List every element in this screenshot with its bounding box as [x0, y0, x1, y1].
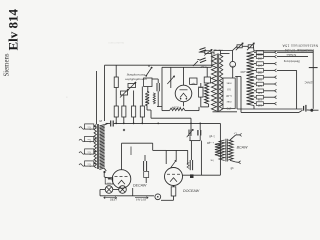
svg-text:unempfindlicher: unempfindlicher [124, 77, 147, 81]
svg-text:150: 150 [257, 77, 262, 80]
svg-text:Abn.: Abn. [87, 140, 92, 143]
svg-text:qB: qB [230, 167, 233, 170]
svg-text:110VAC: 110VAC [304, 81, 313, 84]
svg-text:DECAW: DECAW [133, 183, 147, 187]
svg-text:220: 220 [257, 71, 262, 74]
svg-text:Überbrückung: Überbrückung [283, 60, 300, 64]
svg-text:Abn.: Abn. [87, 153, 92, 156]
svg-text:0,1µF: 0,1µF [200, 65, 207, 67]
svg-text:1–qB: 1–qB [209, 135, 215, 138]
svg-text:max: max [226, 100, 231, 103]
svg-text:1TO: 1TO [227, 106, 232, 109]
svg-text:9,8: 9,8 [227, 88, 231, 91]
svg-text:Elv 814: Elv 814 [6, 8, 21, 50]
svg-text:max: max [226, 82, 231, 85]
svg-text:Netzanschluss 15A: Netzanschluss 15A [282, 44, 318, 48]
svg-text:+ ~qB: + ~qB [207, 141, 214, 145]
svg-text:240: 240 [257, 64, 262, 67]
svg-text:125: 125 [257, 84, 262, 87]
svg-text:BCAW: BCAW [237, 145, 248, 149]
svg-text:DOCEAW: DOCEAW [183, 189, 200, 193]
svg-text:ho2W: ho2W [197, 85, 204, 87]
svg-text:einstellbar 17–24: einstellbar 17–24 [285, 48, 314, 52]
svg-text:4µF: 4µF [191, 82, 196, 85]
svg-text:Abn.: Abn. [87, 165, 92, 168]
svg-text:Siemens: Siemens [3, 53, 10, 76]
svg-text:Fernempfang: Fernempfang [127, 73, 146, 77]
svg-text:200: 200 [257, 57, 262, 60]
svg-text:110: 110 [257, 104, 261, 107]
svg-text:110: 110 [257, 91, 261, 94]
svg-text:Abn.: Abn. [87, 128, 92, 131]
svg-text:Schalter-: Schalter- [286, 53, 297, 57]
svg-text:~220: ~220 [240, 70, 246, 74]
svg-text:laudermann: laudermann [108, 41, 124, 45]
svg-text:125: 125 [257, 97, 262, 100]
svg-text:1–98: 1–98 [226, 94, 232, 97]
